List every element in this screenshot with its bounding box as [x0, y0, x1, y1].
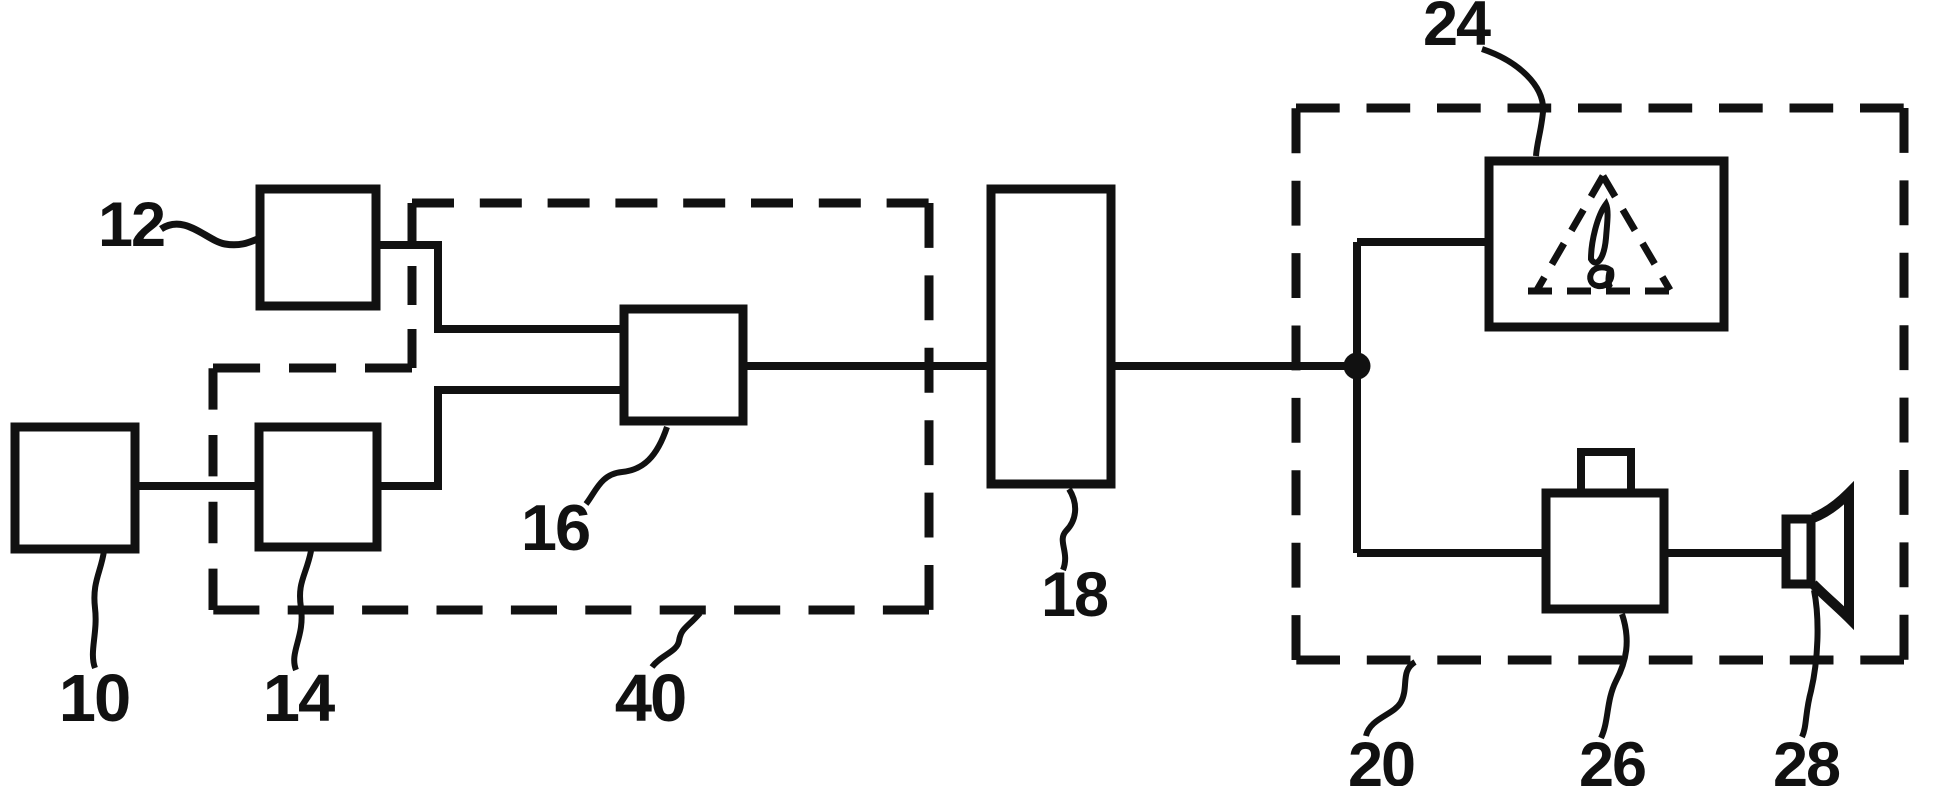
label 16	[521, 491, 589, 564]
wire box10 to box14	[133, 482, 261, 490]
box 12	[260, 189, 376, 306]
box 26	[1546, 452, 1664, 609]
label 20	[1348, 730, 1414, 786]
leader 16	[586, 427, 667, 504]
dashed enclosure 40	[213, 203, 929, 610]
svg-text:40: 40	[615, 661, 686, 736]
wire junction to box24	[1357, 238, 1486, 246]
warning triangle in box 24	[1528, 176, 1680, 291]
wire box26 to speaker28	[1663, 549, 1787, 557]
leader 24	[1482, 49, 1543, 156]
label 26	[1579, 730, 1645, 786]
speaker 28	[1786, 493, 1849, 618]
junction node	[1344, 353, 1371, 380]
label 14	[263, 661, 335, 736]
label 12	[98, 190, 164, 260]
wire junction vertical bus	[1353, 242, 1361, 553]
box 10	[15, 427, 135, 549]
svg-text:10: 10	[59, 661, 130, 736]
box 24	[1489, 161, 1724, 327]
svg-text:20: 20	[1348, 730, 1414, 786]
leader 40	[652, 613, 700, 667]
label 28	[1773, 730, 1840, 786]
wire junction to box26	[1357, 549, 1543, 557]
wire box18 to junction	[1109, 362, 1357, 370]
svg-text:18: 18	[1041, 560, 1108, 630]
wire box16 to box18	[741, 362, 993, 370]
leader 14	[294, 551, 311, 670]
leader 12	[161, 224, 260, 245]
svg-text:12: 12	[98, 190, 164, 260]
wire box14 to box16 lower input	[379, 390, 622, 486]
leader 28	[1802, 590, 1818, 737]
svg-text:14: 14	[263, 661, 335, 736]
leader 20	[1366, 662, 1415, 736]
dashed enclosure 20	[1296, 108, 1904, 660]
svg-text:28: 28	[1773, 730, 1840, 786]
label 18	[1041, 560, 1108, 630]
wire box12 to box16 upper input	[379, 245, 622, 329]
box 14	[259, 427, 377, 547]
leader 26	[1601, 614, 1627, 738]
svg-text:24: 24	[1423, 0, 1491, 59]
svg-text:26: 26	[1579, 730, 1645, 786]
leader 10	[93, 551, 104, 668]
box 16	[624, 309, 743, 421]
label 24	[1423, 0, 1491, 59]
label 40	[615, 661, 686, 736]
box 18	[991, 189, 1111, 484]
label 10	[59, 661, 130, 736]
svg-text:16: 16	[521, 491, 589, 564]
leader 18	[1063, 489, 1075, 570]
